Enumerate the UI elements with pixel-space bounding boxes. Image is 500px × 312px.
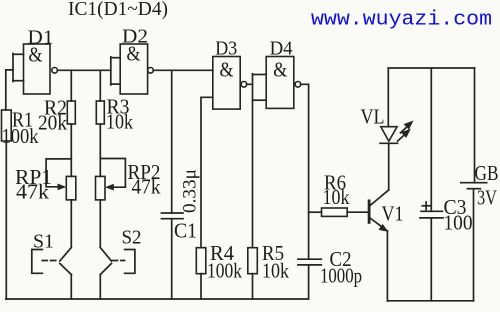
svg-text:100: 100 (444, 211, 473, 235)
watermark www.wuyazi.com (311, 9, 492, 32)
LED VL (361, 68, 398, 143)
svg-text:GB: GB (475, 161, 499, 185)
resistor R6 (309, 171, 368, 217)
svg-text:D2: D2 (122, 26, 148, 48)
svg-text:10k: 10k (323, 185, 350, 209)
switch S1 (32, 231, 72, 300)
svg-text:10k: 10k (262, 259, 289, 283)
LED light arrows (397, 121, 414, 142)
potentiometer RP1 (15, 159, 76, 204)
svg-text:0.33μ: 0.33μ (180, 169, 201, 213)
top rail wire (388, 67, 474, 69)
svg-text:47k: 47k (16, 180, 50, 204)
gate D4 (266, 38, 301, 109)
wire D1 output to D2 input (57, 69, 110, 71)
right ground rail (387, 300, 473, 302)
svg-text:S1: S1 (33, 231, 54, 253)
resistor R5 (248, 241, 290, 299)
capacitor C3 (420, 68, 473, 301)
wire RP1 to S1 (70, 200, 72, 248)
svg-text:&: & (273, 58, 287, 82)
D2 input bracket (111, 57, 120, 85)
resistor R3 (96, 70, 133, 133)
svg-text:3V: 3V (477, 186, 497, 210)
wire D4 input node down to R5 (252, 100, 254, 248)
svg-text:100k: 100k (2, 124, 39, 148)
D4 input bracket and wire from D3 output (247, 74, 267, 100)
svg-text:D1: D1 (28, 27, 54, 49)
capacitor C1 (162, 70, 201, 299)
left ground rail (6, 298, 309, 300)
svg-text:VL: VL (361, 105, 385, 129)
svg-text:V1: V1 (382, 202, 404, 226)
resistor R1 (2, 108, 39, 300)
svg-text:S2: S2 (122, 227, 142, 249)
gate D2 (120, 26, 153, 95)
svg-text:1000p: 1000p (320, 264, 362, 288)
wire D3 lower input to R4 (201, 97, 213, 247)
wire R3 to RP2 (99, 124, 101, 176)
svg-text:10k: 10k (106, 110, 133, 134)
svg-text:C1: C1 (174, 219, 197, 243)
capacitor C2 (298, 247, 362, 299)
svg-text:20k: 20k (38, 111, 67, 135)
svg-text:IC1(D1~D4): IC1(D1~D4) (68, 0, 168, 20)
title IC1(D1~D4) (68, 0, 168, 20)
transistor V1 (368, 143, 404, 301)
wire R2 to RP1 (70, 124, 72, 176)
svg-text:100k: 100k (207, 259, 242, 283)
battery GB (461, 68, 499, 301)
wire RP2 to S2 (99, 200, 101, 248)
svg-text:&: & (220, 58, 234, 82)
svg-text:www.wuyazi.com: www.wuyazi.com (311, 9, 492, 32)
resistor R4 (196, 241, 242, 299)
switch S2 (100, 227, 141, 300)
resistor R2 (38, 70, 75, 134)
wire D4 output down to C2 (301, 84, 309, 259)
wire D2 output to D3 input (153, 69, 213, 71)
gate D3 (213, 38, 247, 110)
svg-text:D3: D3 (215, 38, 237, 60)
potentiometer RP2 (96, 159, 161, 200)
svg-text:D4: D4 (270, 38, 293, 60)
D1 input bracket (6, 54, 24, 111)
gate D1 (24, 27, 58, 95)
svg-text:47k: 47k (132, 175, 161, 199)
